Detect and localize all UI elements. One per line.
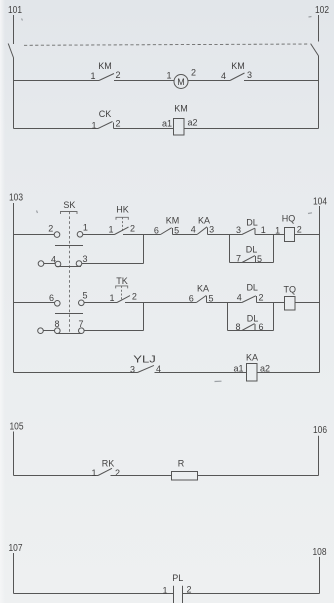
svg-text:106: 106 [313, 425, 327, 436]
svg-text:4: 4 [237, 293, 242, 303]
wire SK row4 to riser [84, 330, 143, 332]
svg-text:6: 6 [154, 226, 159, 236]
coil HQ 1-2 [275, 214, 302, 242]
svg-text:1: 1 [91, 468, 96, 478]
wire row M1 after HK [123, 234, 161, 236]
svg-text:KM: KM [166, 216, 180, 226]
wire row M1 from left bus [14, 234, 55, 236]
coil KA a1-a2 [233, 353, 270, 382]
svg-text:KM: KM [98, 61, 112, 71]
contact CK 1-2 [91, 109, 120, 131]
svg-text:1: 1 [109, 293, 114, 303]
svg-text:2: 2 [297, 225, 302, 235]
wire bottom row right [257, 372, 320, 374]
disconnect switch blade right [311, 44, 319, 56]
wire row R left [14, 475, 99, 477]
svg-text:2: 2 [191, 68, 196, 78]
svg-text:104: 104 [313, 197, 327, 208]
svg-text:5: 5 [82, 291, 87, 301]
wire row L2 right [185, 128, 319, 130]
wire 102 lead-in [318, 15, 320, 42]
svg-text:5: 5 [257, 254, 262, 264]
svg-text:103: 103 [9, 193, 23, 204]
svg-text:1: 1 [90, 71, 95, 81]
wire row M2 after TK [125, 302, 196, 304]
svg-text:TQ: TQ [284, 285, 297, 295]
coil TQ [284, 285, 297, 311]
wire row M2 to coil [257, 302, 285, 304]
svg-text:HQ: HQ [282, 214, 296, 224]
svg-text:2: 2 [258, 293, 263, 303]
wire bottom row left [14, 372, 138, 374]
wire row L1 right [244, 80, 319, 82]
svg-text:105: 105 [10, 422, 24, 433]
wire left bus top section [13, 58, 15, 129]
wire row M1 to right bus [295, 234, 320, 236]
svg-text:3: 3 [82, 254, 87, 264]
junction SK row4 riser [143, 303, 145, 331]
svg-text:a1: a1 [233, 364, 243, 374]
svg-text:a1: a1 [162, 119, 172, 129]
wire 105 lead [13, 432, 15, 476]
SK open terminal row4 [38, 328, 55, 334]
wire right bus middle section [319, 206, 321, 373]
switch SK label and actuator [61, 200, 78, 214]
svg-text:102: 102 [315, 5, 329, 16]
wire row M2 from left bus [14, 302, 55, 304]
svg-text:2: 2 [115, 468, 120, 478]
svg-text:1: 1 [162, 586, 167, 596]
svg-text:1: 1 [261, 225, 266, 235]
wire [114, 80, 174, 82]
svg-text:R: R [178, 459, 185, 469]
svg-text:8: 8 [235, 322, 240, 332]
svg-text:PL: PL [172, 573, 183, 583]
svg-text:3: 3 [247, 70, 252, 80]
scan specks (decorative) [22, 17, 313, 382]
svg-text:RK: RK [102, 459, 115, 469]
wire [207, 302, 242, 304]
contact KM 6-5 [154, 216, 179, 236]
svg-text:1: 1 [108, 225, 113, 235]
svg-text:101: 101 [8, 5, 22, 16]
limit switch TK 1-2 [109, 276, 136, 303]
svg-text:7: 7 [78, 319, 83, 329]
svg-text:108: 108 [313, 547, 327, 558]
svg-text:6: 6 [189, 294, 194, 304]
resistor R [172, 459, 198, 481]
wire left bus middle section [13, 203, 15, 373]
contact DL 4-2 [237, 283, 264, 303]
contact KA 4-3 [191, 216, 214, 235]
wire 106 lead [318, 436, 320, 476]
wire right bus top section [318, 56, 320, 129]
svg-text:1: 1 [83, 223, 88, 233]
svg-text:KM: KM [231, 61, 245, 71]
branch rise wire [273, 235, 275, 263]
wire [83, 234, 115, 236]
wire row R right [198, 475, 319, 477]
wire row M1 to coil [255, 234, 285, 236]
svg-text:2: 2 [132, 292, 137, 302]
svg-text:3: 3 [236, 225, 241, 235]
wire row L1 left [14, 80, 99, 82]
svg-text:6: 6 [258, 322, 263, 332]
wire [84, 302, 117, 304]
svg-text:KM: KM [174, 104, 188, 114]
disconnect switch blade left [8, 44, 13, 59]
svg-text:107: 107 [9, 543, 23, 554]
wire 108 lead [319, 557, 321, 594]
SK contact 6-5 [49, 291, 88, 314]
svg-text:7: 7 [236, 254, 241, 264]
svg-text:1: 1 [166, 71, 171, 81]
contact DL 3-1 [236, 218, 266, 236]
contact YLJ 3-4 [130, 355, 161, 375]
svg-text:KA: KA [197, 284, 209, 294]
wire [111, 475, 172, 477]
wire [188, 80, 230, 82]
contact KM 4-3 [221, 61, 252, 81]
svg-text:2: 2 [115, 70, 120, 80]
svg-text:6: 6 [49, 293, 54, 303]
SK open terminal row2 [38, 261, 55, 267]
bell PL 1-2 [162, 573, 191, 603]
contact KA 6-5 [189, 284, 214, 304]
svg-text:CK: CK [99, 109, 112, 119]
wire [208, 234, 242, 236]
svg-text:TK: TK [116, 276, 128, 286]
wire 101 lead-in [13, 15, 15, 44]
branch bottom wire [230, 262, 274, 264]
contact DL 8-6 [235, 314, 263, 333]
svg-text:4: 4 [221, 71, 226, 81]
svg-text:KA: KA [246, 353, 258, 363]
linkage dashed line [24, 44, 309, 45]
wire bottom left [14, 593, 174, 595]
svg-text:DL: DL [247, 314, 259, 324]
svg-text:DL: DL [246, 245, 258, 255]
wire 107 lead [13, 553, 15, 594]
branch2 rise wire [273, 303, 275, 331]
svg-text:DL: DL [246, 218, 258, 228]
svg-text:2: 2 [115, 119, 120, 129]
svg-text:4: 4 [191, 225, 196, 235]
contact RK 1-2 [91, 459, 120, 479]
wire bottom right [183, 593, 320, 595]
svg-text:2: 2 [48, 224, 53, 234]
svg-text:2: 2 [130, 224, 135, 234]
junction SK row2 riser [143, 235, 145, 264]
svg-text:3: 3 [130, 365, 135, 375]
svg-text:DL: DL [246, 283, 258, 293]
svg-text:a2: a2 [187, 118, 197, 128]
SK contact 2-1 [48, 223, 88, 246]
SK contact 4-3 [51, 254, 88, 267]
wire [173, 234, 198, 236]
wire [155, 372, 247, 374]
contact DL 7-5 [236, 245, 262, 265]
svg-text:HK: HK [116, 205, 129, 215]
SK shaft dashed [69, 212, 71, 334]
svg-text:M: M [177, 77, 185, 87]
wire row L2 left [14, 128, 99, 130]
wire [114, 128, 174, 130]
branch drop wire [229, 235, 231, 263]
branch2 bottom wire [228, 330, 274, 332]
limit switch HK 1-2 [108, 205, 135, 235]
branch2 drop wire [227, 303, 229, 331]
svg-text:1: 1 [91, 121, 96, 131]
svg-text:SK: SK [63, 200, 75, 210]
motor M [166, 68, 196, 89]
wire row M2 to right bus [295, 302, 320, 304]
coil KM a1-a2 [162, 104, 198, 136]
wire SK row2 to riser [82, 263, 144, 265]
svg-text:YLJ: YLJ [133, 355, 156, 366]
svg-text:1: 1 [275, 226, 280, 236]
svg-text:3: 3 [209, 225, 214, 235]
contact KM 1-2 [90, 61, 120, 81]
SK contact 8-7 [54, 319, 84, 334]
